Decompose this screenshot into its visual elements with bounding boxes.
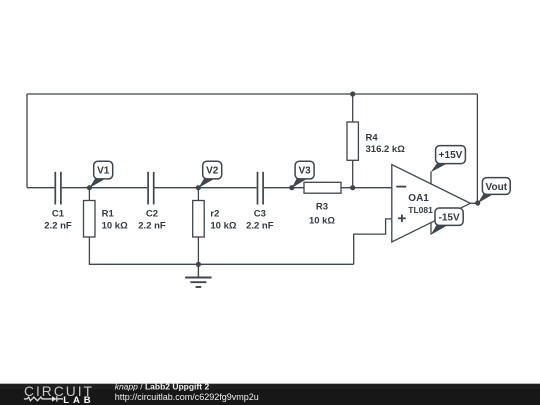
svg-text:C1: C1: [52, 208, 65, 219]
junction dot ground bus: [196, 262, 201, 267]
wire top feedback: [27, 93, 477, 95]
wire R4 top lead: [352, 94, 354, 122]
wire C1 to C2: [62, 187, 147, 189]
resistor R3: [304, 182, 341, 193]
capacitor C3 value label: [246, 208, 274, 231]
svg-text:316.2 kΩ: 316.2 kΩ: [366, 144, 406, 155]
wire input to C1: [27, 187, 54, 189]
svg-text:knapp / Labb2 Uppgift 2: knapp / Labb2 Uppgift 2: [115, 381, 210, 391]
capacitor C2 value label: [138, 208, 166, 231]
junction dot top wire R4: [350, 91, 355, 96]
wire R4 bottom lead: [352, 160, 354, 187]
capacitor C1: [55, 172, 61, 205]
resistor R3 value label: [309, 202, 335, 227]
svg-text:http://circuitlab.com/c6292fg9: http://circuitlab.com/c6292fg9vmp2u: [115, 392, 259, 402]
footer title text: [115, 381, 210, 391]
wire R3 to op-amp minus input: [341, 187, 392, 189]
svg-text:10 kΩ: 10 kΩ: [309, 216, 335, 227]
resistor R1 value label: [102, 208, 128, 231]
wire right vertical feedback: [476, 94, 478, 203]
svg-text:R1: R1: [102, 208, 115, 219]
op-amp plus input symbol: [398, 215, 406, 223]
svg-text:10 kΩ: 10 kΩ: [210, 220, 236, 231]
svg-text:2.2 nF: 2.2 nF: [246, 220, 274, 231]
svg-text:r2: r2: [210, 208, 219, 219]
wire r2 bottom lead: [197, 237, 199, 264]
op-amp positive power pin: [430, 172, 432, 184]
svg-text:LAB: LAB: [63, 395, 94, 405]
wire left vertical: [26, 94, 28, 188]
wire r2 top lead: [197, 188, 199, 201]
wire to op-amp plus input: [354, 219, 392, 264]
node V2 junction dot: [196, 185, 201, 190]
svg-text:V1: V1: [97, 166, 110, 177]
resistor R4: [347, 122, 358, 160]
resistor r2: [193, 201, 205, 238]
ground: [185, 264, 211, 287]
capacitor C3: [258, 172, 264, 205]
svg-text:10 kΩ: 10 kΩ: [102, 220, 128, 231]
node Vout flag: [478, 178, 510, 204]
wire op-amp output: [470, 202, 477, 204]
svg-text:2.2 nF: 2.2 nF: [44, 220, 72, 231]
wire R1 bottom lead to ground bus: [89, 237, 198, 264]
footer url text: [115, 392, 259, 402]
node Vout junction dot: [475, 200, 480, 205]
CircuitLab logo wordmark LAB: [63, 395, 94, 405]
junction dot R3-R4: [350, 185, 355, 190]
node V1 flag: [89, 161, 112, 188]
svg-text:C3: C3: [254, 208, 266, 219]
op-amp minus input symbol: [396, 186, 406, 188]
resistor R4 value label: [366, 132, 406, 154]
node V1 junction dot: [87, 185, 92, 190]
wire C3 to R3: [264, 187, 304, 189]
svg-text:+15V: +15V: [439, 150, 463, 161]
CircuitLab logo wordmark CIRCUIT: [24, 384, 94, 399]
wire ground bus right: [198, 263, 353, 265]
svg-text:Vout: Vout: [486, 182, 508, 193]
node V3 junction dot: [289, 185, 294, 190]
svg-text:-15V: -15V: [439, 213, 460, 224]
node -15V flag: [431, 208, 464, 235]
node V3 flag: [292, 161, 314, 188]
footer bar background: [0, 384, 540, 405]
op-amp negative power pin: [430, 223, 432, 235]
svg-text:C2: C2: [146, 208, 158, 219]
svg-text:R3: R3: [316, 202, 328, 213]
op-amp OA1: [392, 165, 471, 243]
resistor r2 value label: [210, 208, 236, 231]
svg-text:R4: R4: [366, 132, 379, 143]
svg-text:TL081: TL081: [408, 205, 433, 215]
wire C2 to C3: [155, 187, 257, 189]
svg-text:V3: V3: [298, 166, 311, 177]
CircuitLab logo resistor zigzag and diode symbol: [24, 396, 63, 401]
node +15V flag: [431, 146, 466, 173]
capacitor C2: [148, 172, 154, 205]
resistor R1: [84, 201, 96, 238]
wire R1 top lead: [88, 188, 90, 201]
node V2 flag: [198, 161, 221, 188]
svg-text:2.2 nF: 2.2 nF: [138, 220, 166, 231]
svg-text:OA1: OA1: [408, 193, 429, 204]
op-amp OA1 TL081 label: [408, 193, 433, 215]
svg-text:V2: V2: [206, 166, 219, 177]
capacitor C1 value label: [44, 208, 72, 231]
